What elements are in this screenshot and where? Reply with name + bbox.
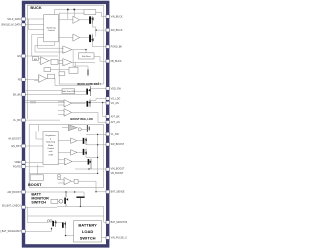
vref box: [30, 175, 43, 181]
comparator B: [63, 59, 72, 66]
bandgap box: [33, 57, 39, 61]
svg-text:BATTERY: BATTERY: [78, 223, 97, 228]
regulation box text: [46, 134, 57, 156]
transistor F5: [88, 159, 92, 169]
wire soft start to FB_BUCK pin: [94, 57, 106, 62]
wire reg box to D4: [58, 151, 70, 153]
wire VIN_BUCK pin: [102, 16, 107, 18]
driver triangle D1: [73, 16, 80, 23]
svg-text:LOAD: LOAD: [82, 229, 93, 234]
svg-text:SCLK_DATA: SCLK_DATA: [7, 18, 21, 21]
monitor FET Db (horizontal): [76, 197, 84, 207]
svg-text:VB_BOOST: VB_BOOST: [111, 172, 124, 175]
wire comparator C out: [47, 79, 91, 86]
wire monitor bottom rail: [57, 205, 103, 207]
wire sc box top to rail: [54, 10, 56, 16]
boost block rect: [29, 125, 104, 188]
wire EN_BAT_CHECK pin: [25, 206, 57, 208]
svg-text:PGND_BK: PGND_BK: [111, 46, 123, 49]
svg-text:OOB: OOB: [48, 154, 53, 156]
svg-text:BG: BG: [34, 59, 37, 61]
logic box after error amp: [51, 60, 58, 65]
svg-text:VIN_BOOST: VIN_BOOST: [111, 168, 125, 171]
svg-text:VL_BO: VL_BO: [13, 119, 21, 122]
left pin pads: [22, 17, 25, 233]
wire D1 to FET1 gate: [80, 19, 90, 21]
svg-text:EN: EN: [17, 55, 21, 58]
wire bottom-left bus: [27, 207, 48, 222]
wire AW_BOOST pin: [25, 192, 84, 197]
buck rail stub 2: [73, 10, 75, 17]
wire from logic box b up: [74, 66, 88, 70]
right pin pads: [106, 15, 109, 240]
wire monitor box to circle: [58, 200, 59, 202]
wire VREF pin: [25, 161, 43, 163]
svg-text:VREF: VREF: [14, 161, 21, 164]
wire comparator B inputs: [58, 60, 63, 63]
monitor FET Da: [64, 192, 68, 206]
wire D3 to F3 gate: [77, 140, 83, 142]
ldo feedback circle: [78, 128, 81, 131]
load switch input circles: [47, 220, 49, 222]
svg-text:Control: Control: [47, 147, 54, 150]
driver triangle D4: [71, 150, 78, 156]
svg-text:FB: FB: [18, 78, 21, 81]
wire ldo fet rail: [89, 99, 91, 108]
svg-text:Soft Start: Soft Start: [82, 55, 91, 58]
monitor small box: [51, 199, 58, 203]
wire E out to F5 gate: [72, 161, 88, 163]
junction dots: [51, 9, 104, 237]
svg-text:SWITCH: SWITCH: [80, 235, 96, 240]
comparator E: [65, 158, 73, 165]
wire ldo g1 inputs: [58, 102, 64, 106]
osc box a: [44, 68, 51, 72]
comparator plus minus marks: [39, 48, 67, 185]
svg-text:SW_BUCK: SW_BUCK: [111, 29, 123, 32]
svg-text:Switching: Switching: [46, 141, 56, 144]
wire bg to error amp: [39, 59, 41, 63]
wire F3 drain to VL_SW pin: [86, 133, 106, 135]
wire PGATE pin: [25, 166, 44, 168]
ldo pass amp shaded triangle: [68, 125, 77, 131]
wire soft-turn-on gate: [75, 90, 87, 92]
wire comparator A out: [72, 50, 86, 68]
svg-text:SINGLE_W_DATA: SINGLE_W_DATA: [1, 24, 21, 27]
battery load switch box: [74, 221, 102, 242]
svg-text:AW_BOOST: AW_BOOST: [7, 191, 21, 194]
wire F5 rail to VIN_BOOST pin: [86, 155, 98, 158]
wire sc to driver D1: [59, 19, 73, 21]
wire fet eb down to box: [66, 229, 74, 236]
buck top rail: [55, 9, 84, 11]
svg-text:Switching: Switching: [47, 26, 57, 29]
wire comparator A inputs: [32, 34, 63, 56]
component boxes: [30, 10, 101, 242]
wire EN_BST pin to regulation box: [25, 145, 43, 147]
wire box1 to VIN rail: [96, 12, 102, 16]
soft start box: [79, 53, 95, 59]
soft-turn-on box: [62, 89, 75, 94]
comparator C: [39, 75, 47, 83]
svg-text:BAT_SENSE: BAT_SENSE: [111, 191, 125, 194]
logic box d: [59, 72, 65, 76]
svg-text:SW_BOOST: SW_BOOST: [111, 143, 125, 146]
wire LDO rail left: [25, 100, 106, 102]
svg-text:BAT_MONITOR: BAT_MONITOR: [111, 221, 127, 224]
svg-text:PGATE: PGATE: [13, 165, 21, 168]
wire EN_BK pin to soft-turn-on: [25, 89, 62, 91]
svg-text:VO_LDO: VO_LDO: [111, 97, 121, 100]
batt monitor switch text: [31, 193, 49, 205]
wire rail y93: [25, 93, 86, 95]
wire ldo g2 out to AVT_AN pin: [72, 112, 107, 122]
driver triangle D3: [71, 138, 78, 144]
logic box c: [48, 74, 55, 79]
oscillator circle b: [58, 177, 61, 180]
transistor F4: [83, 149, 87, 155]
wire F out via box: [72, 180, 97, 182]
transistor ldo FET F6: [87, 100, 91, 107]
wire SW node to SW_BUCK pin: [93, 24, 107, 37]
buck power stage enclosure: [59, 13, 104, 84]
battery load switch text: [78, 223, 97, 241]
regulation mode control box: [43, 132, 58, 165]
wire to BAT_SENSE pin: [96, 181, 106, 192]
wire monitor to BAT_MONITOR pin: [104, 206, 106, 222]
comparator F box: [74, 179, 78, 183]
small series element dash: [87, 70, 89, 76]
svg-text:BUCK: BUCK: [30, 5, 41, 10]
wire FET2 source to PGND pin: [93, 42, 107, 47]
svg-text:AVT_BK: AVT_BK: [111, 115, 120, 118]
box texts: [34, 26, 91, 93]
svg-text:Control: Control: [48, 29, 55, 32]
svg-text:FB_BUCK: FB_BUCK: [111, 60, 122, 63]
svg-text:EN_BST: EN_BST: [11, 145, 21, 148]
wire comparator C inputs: [34, 80, 39, 82]
transistor FET2: [89, 35, 93, 42]
wire ldo to AVT_BK pin: [103, 103, 107, 117]
wire comparator F inputs: [58, 179, 64, 183]
driver triangle D2: [73, 34, 80, 41]
switching control box: [44, 15, 59, 42]
batt monitor section bottom edge: [28, 215, 104, 217]
svg-text:Mode: Mode: [48, 145, 54, 147]
wire into pass amp: [62, 128, 87, 130]
wire VL_BO pin: [25, 119, 60, 121]
svg-text:Regulation: Regulation: [46, 134, 57, 137]
svg-text:VIN_PULSE_CONN: VIN_PULSE_CONN: [111, 237, 127, 240]
svg-text:Soft-Turn-ON: Soft-Turn-ON: [62, 90, 75, 93]
svg-text:BOOST REG, LDO: BOOST REG, LDO: [70, 117, 92, 121]
oscillator circle a: [58, 174, 61, 177]
wire box to VIN_PULSE pin: [102, 237, 107, 239]
monitor current source circle: [59, 199, 63, 203]
wires: [25, 10, 106, 238]
wire CLK_DATA to switching control: [25, 18, 44, 20]
load switch FET Eb: [62, 222, 66, 229]
wire sc to driver D2: [59, 37, 73, 39]
wire third input to switching control: [28, 19, 43, 29]
wire D2 to FET2 gate: [80, 37, 90, 39]
comparator A: [63, 46, 72, 53]
wire FB pin to comparator C: [25, 79, 38, 81]
svg-text:EN_BAT_CHECK: EN_BAT_CHECK: [2, 204, 21, 207]
wire reg box bottom to vref box: [29, 165, 106, 175]
buck block left edge: [26, 5, 28, 119]
svg-text:VL_SW: VL_SW: [111, 133, 120, 136]
wire EN_BAT_SW pin: [25, 223, 62, 232]
ldo output cap glyph: [87, 125, 89, 132]
svg-text:VO_AN: VO_AN: [111, 102, 119, 105]
wire comparator E inputs: [58, 160, 65, 163]
wire error amp to logic box: [49, 61, 70, 70]
transistor F3: [83, 138, 87, 145]
wire reg box to D3: [58, 140, 70, 142]
wire boost SW node to SW_BOOST pin: [86, 144, 106, 146]
wire comparator B out: [72, 61, 95, 63]
left pin labels: [0, 18, 21, 233]
ldo amp G1: [64, 100, 72, 107]
svg-text:EN_BK: EN_BK: [13, 93, 21, 96]
comparator F: [64, 178, 72, 185]
buck block top edge: [27, 4, 104, 6]
svg-text:AVT_AN: AVT_AN: [111, 121, 120, 124]
buck sense box1: [84, 10, 96, 15]
outer IC boundary box: [24, 2, 108, 246]
transistor sw FET C: [86, 86, 90, 96]
wire boost rail: [97, 134, 99, 169]
ldo amp G2: [64, 109, 72, 117]
wire ldo g1 out: [72, 102, 86, 104]
wire D4 to F4 gate: [77, 151, 83, 153]
error amp T1: [41, 57, 50, 65]
svg-text:VIN_BUCK: VIN_BUCK: [111, 16, 123, 19]
svg-text:EN_BAT_SW-EN-BAT: EN_BAT_SW-EN-BAT: [0, 230, 21, 233]
gray bar left of ldo rail: [30, 101, 36, 103]
wire EN pin: [25, 55, 58, 57]
tiny cap mark near gate sw label: [99, 82, 101, 85]
buck block right edge: [103, 5, 105, 84]
wire to VDD_SW pin: [91, 87, 107, 89]
wire LDO rail right to VO_LDO pin: [90, 99, 106, 101]
buck rail stub 1: [67, 10, 69, 20]
right pin labels: [111, 16, 133, 240]
wire WIRE_DATA to switching control: [25, 24, 44, 26]
load switch FET Ea: [52, 220, 56, 227]
wire corner into regulation box: [36, 125, 43, 139]
svg-text:SWITCH: SWITCH: [31, 201, 46, 205]
svg-text:BOOST: BOOST: [28, 183, 42, 187]
svg-text:VA_BOOST: VA_BOOST: [8, 138, 21, 141]
svg-text:VDD_SW: VDD_SW: [111, 87, 122, 90]
wire ldo g2 inputs: [58, 110, 64, 114]
osc box b: [69, 67, 78, 73]
transistor FET1: [89, 16, 93, 23]
